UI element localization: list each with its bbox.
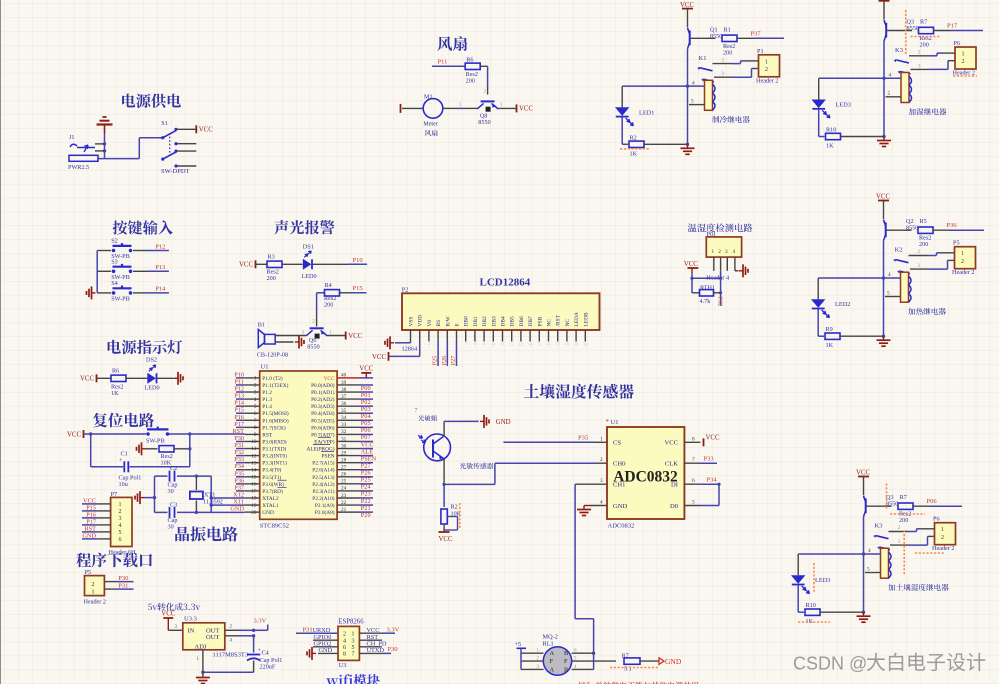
svg-text:2: 2 [961, 259, 964, 265]
svg-text:21: 21 [341, 507, 347, 513]
svg-text:P0.4(AD4): P0.4(AD4) [311, 410, 335, 417]
svg-text:2: 2 [600, 457, 603, 463]
svg-text:4: 4 [119, 523, 122, 529]
svg-text:1: 1 [254, 376, 257, 382]
svg-text:P3.7(RD): P3.7(RD) [262, 488, 283, 495]
svg-text:P1.2: P1.2 [262, 390, 272, 396]
svg-text:P1: P1 [757, 48, 764, 55]
svg-text:P35: P35 [578, 434, 588, 441]
svg-text:P36: P36 [947, 222, 958, 229]
svg-text:NC: NC [547, 319, 553, 327]
svg-text:P25: P25 [361, 477, 371, 484]
svg-text:P37: P37 [751, 30, 762, 37]
svg-text:IN: IN [188, 627, 195, 634]
svg-text:R7: R7 [622, 652, 629, 659]
svg-text:3.3V: 3.3V [387, 626, 400, 633]
svg-text:P3.4(T0): P3.4(T0) [262, 467, 281, 474]
svg-text:SW-PB: SW-PB [146, 437, 165, 444]
svg-text:4: 4 [868, 548, 871, 554]
svg-text:P6: P6 [954, 40, 961, 47]
svg-text:P0.5(AD5): P0.5(AD5) [311, 417, 335, 424]
svg-text:P3.5(T1): P3.5(T1) [262, 474, 281, 481]
svg-text:Header 2: Header 2 [932, 545, 955, 552]
svg-text:P05: P05 [361, 420, 371, 427]
svg-text:10: 10 [251, 439, 257, 445]
svg-text:25: 25 [341, 479, 347, 485]
svg-text:P10: P10 [234, 371, 244, 378]
svg-text:P35: P35 [234, 470, 244, 477]
svg-text:5: 5 [254, 404, 257, 410]
svg-text:15: 15 [251, 474, 257, 480]
svg-text:A: A [550, 650, 555, 657]
svg-text:35: 35 [341, 408, 347, 414]
svg-text:39: 39 [341, 380, 347, 386]
svg-text:5.1: 5.1 [624, 665, 632, 672]
svg-text:P00: P00 [361, 385, 371, 392]
svg-text:1K: 1K [826, 342, 834, 349]
svg-text:12864: 12864 [402, 346, 419, 353]
svg-text:PWR2.5: PWR2.5 [68, 164, 89, 171]
svg-text:17: 17 [251, 489, 257, 495]
svg-text:9: 9 [254, 432, 257, 438]
svg-text:URXD: URXD [313, 627, 331, 634]
svg-text:6: 6 [692, 478, 695, 484]
svg-text:30: 30 [341, 443, 347, 449]
svg-text:P02: P02 [361, 399, 371, 406]
svg-text:VCC: VCC [684, 261, 698, 268]
svg-text:R5: R5 [920, 218, 927, 225]
svg-text:VCC: VCC [361, 441, 374, 448]
svg-text:3: 3 [725, 249, 728, 255]
svg-text:P12: P12 [155, 243, 165, 250]
svg-text:P3.2(INT0): P3.2(INT0) [262, 453, 287, 460]
svg-text:Header 2: Header 2 [84, 598, 107, 605]
svg-text:CH1: CH1 [613, 482, 625, 489]
svg-text:1K: 1K [630, 150, 638, 157]
svg-text:P11: P11 [234, 378, 244, 385]
svg-text:5: 5 [867, 567, 870, 573]
svg-text:P0.3(AD3): P0.3(AD3) [311, 403, 335, 410]
svg-text:VCC: VCC [80, 376, 94, 383]
svg-text:VCC: VCC [199, 127, 213, 134]
svg-text:200: 200 [267, 275, 276, 282]
svg-text:U3: U3 [339, 662, 347, 669]
svg-text:X11: X11 [233, 499, 244, 506]
svg-text:CH0: CH0 [613, 461, 626, 468]
svg-text:VCC: VCC [67, 431, 81, 438]
svg-text:26: 26 [341, 472, 347, 478]
svg-text:P21: P21 [361, 505, 371, 512]
svg-text:ALE(PROG): ALE(PROG) [307, 446, 335, 453]
svg-text:P2: P2 [402, 287, 409, 294]
svg-text:P17: P17 [234, 421, 244, 428]
svg-text:J1: J1 [69, 134, 75, 141]
svg-text:P20: P20 [361, 512, 371, 519]
svg-text:7: 7 [415, 408, 418, 414]
svg-text:RTH1: RTH1 [700, 284, 715, 291]
svg-text:P27: P27 [450, 356, 457, 366]
svg-text:P32: P32 [234, 449, 244, 456]
svg-text:12: 12 [251, 453, 257, 459]
svg-text:4: 4 [343, 638, 346, 644]
svg-text:1K: 1K [826, 143, 834, 150]
svg-text:PSEN: PSEN [361, 455, 377, 462]
svg-text:4: 4 [692, 80, 695, 86]
svg-text:2: 2 [119, 509, 122, 515]
svg-text:VCC: VCC [348, 333, 362, 340]
svg-text:D0: D0 [670, 503, 679, 510]
svg-text:CB-120P-08: CB-120P-08 [257, 352, 288, 359]
svg-text:P16: P16 [234, 414, 244, 421]
svg-text:15: 15 [537, 342, 541, 347]
svg-text:ADC0832: ADC0832 [608, 523, 635, 530]
svg-text:P13: P13 [234, 393, 244, 400]
svg-text:8550: 8550 [307, 343, 319, 350]
svg-text:P04: P04 [361, 413, 372, 420]
svg-text:2: 2 [254, 383, 257, 389]
svg-text:DB2: DB2 [482, 316, 488, 326]
svg-text:12: 12 [510, 342, 514, 347]
svg-text:RL1: RL1 [543, 640, 554, 647]
svg-text:SW-PB: SW-PB [111, 296, 130, 303]
svg-text:8: 8 [343, 652, 346, 658]
svg-text:P26: P26 [361, 470, 371, 477]
svg-text:P13: P13 [155, 264, 165, 271]
svg-text:P22: P22 [361, 498, 371, 505]
svg-text:36: 36 [341, 401, 347, 407]
svg-text:R6: R6 [112, 368, 119, 375]
svg-text:P3.1(TXD): P3.1(TXD) [262, 446, 286, 453]
svg-text:F: F [564, 658, 568, 665]
svg-text:R4: R4 [325, 282, 332, 289]
svg-text:13: 13 [519, 342, 523, 347]
svg-text:3: 3 [600, 478, 603, 484]
svg-text:24: 24 [341, 486, 347, 492]
svg-text:P3.3(INT1): P3.3(INT1) [262, 460, 287, 467]
svg-text:EA(VPP): EA(VPP) [314, 438, 335, 445]
svg-text:P1.4: P1.4 [262, 404, 272, 410]
svg-text:K1: K1 [699, 55, 707, 62]
svg-text:6: 6 [343, 645, 346, 651]
svg-text:P37: P37 [234, 484, 244, 491]
svg-text:1: 1 [961, 251, 964, 257]
svg-text:K3: K3 [875, 523, 883, 530]
svg-text:1117M8S3T3: 1117M8S3T3 [213, 651, 249, 658]
svg-text:CLK: CLK [665, 461, 678, 468]
svg-text:A: A [550, 666, 555, 673]
svg-text:11: 11 [500, 342, 504, 347]
svg-text:P2.3(A11): P2.3(A11) [312, 488, 334, 495]
svg-text:2: 2 [765, 67, 768, 73]
svg-text:STC89C52: STC89C52 [260, 522, 289, 529]
svg-text:3: 3 [254, 390, 257, 396]
svg-text:GND: GND [665, 657, 682, 666]
svg-text:P17: P17 [947, 23, 958, 30]
svg-text:P32: P32 [716, 297, 723, 307]
svg-text:1: 1 [765, 59, 768, 65]
svg-text:LED3: LED3 [836, 102, 851, 109]
svg-text:Meter: Meter [423, 120, 438, 127]
svg-text:S1: S1 [161, 120, 168, 127]
svg-text:17: 17 [556, 342, 560, 347]
svg-text:2: 2 [92, 582, 95, 588]
svg-text:DB5: DB5 [510, 316, 516, 326]
svg-text:V0: V0 [427, 320, 433, 327]
svg-text:29: 29 [341, 450, 347, 456]
svg-text:GND: GND [613, 503, 628, 510]
svg-text:LED0: LED0 [302, 273, 317, 280]
svg-text:DB6: DB6 [519, 316, 525, 326]
svg-text:8: 8 [254, 425, 257, 431]
svg-text:UTXD: UTXD [367, 647, 385, 654]
svg-text:R9: R9 [826, 326, 833, 333]
svg-text:U3.3: U3.3 [184, 616, 197, 623]
svg-text:P2.2(A10): P2.2(A10) [312, 495, 334, 502]
svg-text:GND: GND [319, 647, 333, 654]
svg-text:P15: P15 [353, 285, 363, 292]
svg-text:20: 20 [251, 510, 257, 516]
svg-text:3: 3 [119, 516, 122, 522]
svg-text:200: 200 [919, 241, 928, 248]
svg-text:P34: P34 [234, 463, 245, 470]
svg-text:U1: U1 [261, 364, 269, 371]
svg-text:5: 5 [887, 291, 890, 297]
svg-text:8: 8 [692, 436, 695, 442]
svg-text:P1.3: P1.3 [262, 397, 272, 403]
svg-text:B: B [564, 666, 568, 673]
svg-text:1: 1 [962, 52, 965, 58]
svg-text:32: 32 [341, 429, 347, 435]
svg-text:9: 9 [483, 342, 485, 347]
svg-text:K3: K3 [895, 47, 903, 54]
svg-text:P7: P7 [111, 491, 118, 498]
svg-text:200: 200 [324, 302, 333, 309]
svg-text:P06: P06 [361, 427, 371, 434]
svg-text:DB0: DB0 [464, 316, 470, 326]
svg-text:XTAL1: XTAL1 [262, 503, 279, 509]
svg-text:B: B [564, 650, 568, 657]
svg-text:220uF: 220uF [260, 664, 276, 671]
svg-text:VCC: VCC [519, 106, 533, 113]
svg-text:23: 23 [341, 493, 347, 499]
svg-text:ALE: ALE [361, 448, 373, 455]
svg-text:5: 5 [888, 91, 891, 97]
svg-text:1: 1 [941, 527, 944, 533]
svg-text:VDD: VDD [418, 315, 424, 327]
svg-text:2: 2 [343, 631, 346, 637]
svg-text:200: 200 [920, 42, 929, 49]
svg-text:30: 30 [168, 488, 174, 495]
svg-text:MQ-2: MQ-2 [543, 633, 558, 640]
svg-text:200: 200 [723, 49, 732, 56]
svg-text:GND: GND [262, 510, 274, 516]
svg-text:8550: 8550 [478, 119, 490, 126]
svg-text:RS: RS [436, 320, 442, 327]
svg-text:8: 8 [474, 342, 476, 347]
svg-text:34: 34 [341, 415, 347, 421]
svg-text:DS2: DS2 [146, 356, 157, 363]
svg-text:37: 37 [341, 394, 347, 400]
svg-text:R3: R3 [268, 253, 275, 260]
svg-text:P30: P30 [234, 435, 244, 442]
svg-text:VCC: VCC [324, 376, 335, 382]
svg-text:28: 28 [341, 457, 347, 463]
svg-text:4: 4 [888, 272, 891, 278]
svg-text:P1.7(SCK): P1.7(SCK) [262, 424, 286, 431]
svg-text:4: 4 [889, 73, 892, 79]
svg-text:18: 18 [251, 496, 257, 502]
svg-text:6: 6 [254, 411, 257, 417]
svg-text:6: 6 [119, 537, 122, 543]
svg-text:22: 22 [341, 500, 347, 506]
svg-text:P0.6(AD6): P0.6(AD6) [311, 424, 335, 431]
svg-text:P34: P34 [707, 476, 718, 483]
svg-text:Header 2: Header 2 [952, 269, 975, 276]
svg-text:C2: C2 [170, 465, 177, 472]
svg-text:19: 19 [251, 503, 257, 509]
svg-text:P31: P31 [234, 442, 244, 449]
svg-text:P2.4(A12): P2.4(A12) [312, 481, 334, 488]
svg-text:7: 7 [254, 418, 257, 424]
svg-text:13: 13 [251, 460, 257, 466]
svg-text:P1.1(T2EX): P1.1(T2EX) [262, 382, 288, 389]
svg-text:3: 3 [352, 638, 355, 644]
svg-text:P25: P25 [432, 356, 439, 366]
svg-text:P01: P01 [361, 392, 371, 399]
svg-text:DI: DI [671, 482, 678, 489]
svg-text:4: 4 [733, 249, 736, 255]
svg-text:27: 27 [341, 465, 347, 471]
svg-text:LEDB: LEDB [583, 312, 589, 326]
svg-text:DB7: DB7 [528, 316, 534, 326]
svg-text:R2: R2 [630, 134, 637, 141]
svg-text:PSEN: PSEN [322, 454, 335, 460]
svg-text:1: 1 [352, 631, 355, 637]
svg-text:P33: P33 [234, 456, 244, 463]
svg-text:4: 4 [254, 397, 257, 403]
svg-text:R2: R2 [451, 504, 458, 511]
svg-text:NC: NC [565, 319, 571, 327]
svg-text:4.7k: 4.7k [700, 298, 712, 305]
svg-text:OUT: OUT [206, 634, 219, 641]
svg-text:P15: P15 [234, 407, 244, 414]
svg-text:PSB: PSB [537, 317, 543, 327]
svg-text:200: 200 [466, 78, 475, 85]
svg-text:SW-DPDT: SW-DPDT [161, 168, 190, 175]
svg-text:U1: U1 [611, 419, 619, 426]
svg-text:10u: 10u [119, 481, 128, 488]
svg-text:VCC: VCC [439, 536, 453, 543]
svg-text:P2.7(A15): P2.7(A15) [312, 460, 334, 467]
svg-text:2: 2 [941, 535, 944, 541]
svg-text:P2.6(A14): P2.6(A14) [312, 467, 334, 474]
svg-text:38: 38 [341, 387, 347, 393]
svg-text:16: 16 [251, 482, 257, 488]
svg-text:P23: P23 [361, 491, 371, 498]
svg-text:P14: P14 [155, 286, 166, 293]
svg-text:VCC: VCC [367, 627, 380, 634]
svg-text:VCC: VCC [239, 262, 253, 269]
svg-text:LED0: LED0 [145, 385, 160, 392]
svg-text:P24: P24 [361, 484, 372, 491]
svg-text:1: 1 [119, 502, 122, 508]
svg-text:XTAL2: XTAL2 [262, 496, 279, 502]
svg-text:5: 5 [119, 530, 122, 536]
svg-text:P0.1(AD1): P0.1(AD1) [311, 389, 335, 396]
svg-text:VSS: VSS [409, 317, 415, 327]
svg-text:VCC: VCC [161, 611, 175, 618]
svg-text:CSDN @: CSDN @ [793, 654, 867, 674]
svg-text:2: 2 [718, 249, 721, 255]
svg-text:14: 14 [251, 467, 257, 473]
svg-text:M1: M1 [424, 93, 433, 100]
svg-text:1K: 1K [111, 390, 119, 397]
svg-text:P1.6(MISO): P1.6(MISO) [262, 417, 289, 424]
svg-text:31: 31 [341, 436, 347, 442]
svg-text:GND: GND [496, 419, 511, 426]
svg-text:R7: R7 [920, 19, 927, 26]
svg-text:*: * [606, 418, 610, 426]
svg-text:2: 2 [962, 59, 965, 65]
svg-text:P2.1(A9): P2.1(A9) [315, 502, 335, 509]
svg-text:R10: R10 [826, 127, 836, 134]
svg-text:LEDA: LEDA [574, 312, 580, 326]
svg-text:P14: P14 [234, 400, 245, 407]
svg-text:11.0592: 11.0592 [203, 498, 223, 505]
svg-text:P2.5(A13): P2.5(A13) [312, 474, 334, 481]
svg-text:LED3: LED3 [815, 577, 830, 584]
svg-text:1: 1 [712, 249, 715, 255]
svg-text:LED1: LED1 [639, 109, 654, 116]
svg-text:5: 5 [691, 99, 694, 105]
svg-text:P31: P31 [118, 583, 128, 590]
svg-text:P5: P5 [85, 569, 92, 576]
svg-text:P11: P11 [438, 58, 448, 65]
svg-text:11: 11 [251, 446, 256, 452]
svg-text:RST: RST [262, 432, 272, 438]
svg-text:P0.2(AD2): P0.2(AD2) [311, 396, 335, 403]
svg-text:S3: S3 [111, 258, 118, 265]
svg-text:F: F [550, 658, 554, 665]
svg-text:18: 18 [565, 342, 569, 347]
svg-text:LED2: LED2 [835, 301, 850, 308]
svg-text:P26: P26 [441, 356, 448, 366]
svg-text:C1: C1 [121, 450, 128, 457]
svg-text:S2: S2 [111, 238, 118, 245]
svg-text:Header 2: Header 2 [953, 70, 976, 77]
svg-text:5: 5 [692, 500, 695, 506]
svg-text:33: 33 [341, 422, 347, 428]
svg-text:R7: R7 [900, 494, 907, 501]
svg-text:P0.7(AD7): P0.7(AD7) [311, 431, 335, 438]
svg-text:P1.5(MOSI): P1.5(MOSI) [262, 410, 289, 417]
svg-text:4: 4 [600, 500, 603, 506]
svg-text:P2.0(A8): P2.0(A8) [315, 509, 335, 516]
svg-text:200: 200 [899, 517, 908, 524]
svg-text:P1.0 (T2): P1.0 (T2) [262, 375, 283, 382]
svg-text:DB1: DB1 [473, 316, 479, 326]
svg-text:LCD12864: LCD12864 [480, 277, 531, 289]
svg-text:R/W: R/W [445, 315, 451, 326]
svg-text:P12: P12 [234, 386, 244, 393]
svg-text:P6: P6 [933, 516, 940, 523]
svg-text:P33: P33 [704, 455, 714, 462]
svg-text:P5: P5 [953, 240, 960, 247]
svg-text:B1: B1 [258, 322, 265, 329]
svg-text:+5: +5 [515, 641, 522, 648]
svg-text:/RST: /RST [556, 314, 562, 326]
svg-text:P3.0(RXD): P3.0(RXD) [262, 438, 287, 445]
